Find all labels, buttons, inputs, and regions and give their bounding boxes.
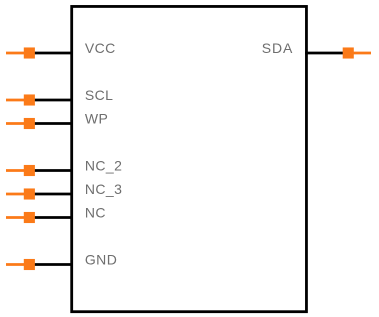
pin NC_2: wire bbox=[34, 169, 73, 172]
pin GND: wire bbox=[34, 263, 73, 266]
pin VCC: terminal square bbox=[24, 47, 35, 58]
pin NC: outer stub bbox=[6, 216, 25, 219]
pin SDA: wire bbox=[305, 52, 343, 55]
pin SCL: terminal square bbox=[24, 94, 35, 105]
pin VCC: outer stub bbox=[6, 52, 25, 55]
pin VCC: wire bbox=[34, 52, 73, 55]
pin WP: outer stub bbox=[6, 122, 25, 125]
pin NC: wire bbox=[34, 216, 73, 219]
pin GND: terminal square bbox=[24, 259, 35, 270]
svg-text:SCL: SCL bbox=[85, 87, 113, 103]
svg-text:NC_3: NC_3 bbox=[85, 181, 122, 197]
svg-text:NC_2: NC_2 bbox=[85, 158, 122, 174]
svg-text:SDA: SDA bbox=[262, 40, 294, 56]
pin WP: wire bbox=[34, 122, 73, 125]
pin NC_2: outer stub bbox=[6, 169, 25, 172]
pin GND: outer stub bbox=[6, 263, 25, 266]
pin NC_3: outer stub bbox=[6, 193, 25, 196]
pin NC_3: wire bbox=[34, 193, 73, 196]
pin SDA: outer stub bbox=[353, 52, 371, 55]
pin NC: terminal square bbox=[24, 212, 35, 223]
svg-text:GND: GND bbox=[85, 252, 117, 268]
svg-text:NC: NC bbox=[85, 205, 106, 221]
pin NC_2: terminal square bbox=[24, 165, 35, 176]
pin NC_3: terminal square bbox=[24, 188, 35, 199]
svg-text:VCC: VCC bbox=[85, 40, 116, 56]
pin WP: terminal square bbox=[24, 118, 35, 129]
IC body rectangle bbox=[72, 6, 307, 311]
svg-text:WP: WP bbox=[85, 111, 108, 127]
pin SCL: outer stub bbox=[6, 99, 25, 102]
pin SCL: wire bbox=[34, 99, 73, 102]
pin SDA: terminal square bbox=[343, 47, 354, 58]
